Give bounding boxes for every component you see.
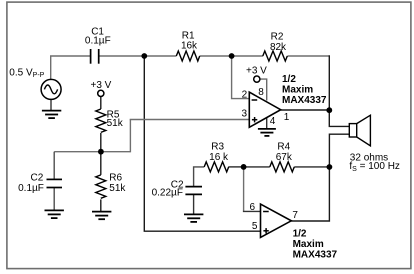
svg-text:0.22µF: 0.22µF	[152, 188, 183, 199]
wire node C left to C2	[54, 151, 101, 153]
svg-text:Maxim: Maxim	[293, 239, 324, 250]
svg-text:16 k: 16 k	[209, 152, 229, 163]
svg-text:5: 5	[252, 221, 258, 232]
wire output node to speaker plus	[329, 110, 349, 126]
wire pin 6 stub	[243, 210, 261, 212]
wire pin 4 to ground	[266, 118, 268, 129]
svg-text:7: 7	[292, 210, 298, 221]
capacitor C2b (0.22uF)	[185, 187, 202, 195]
op-amp U1 (1/2 MAX4337)	[249, 92, 280, 127]
resistor R2	[263, 51, 288, 61]
svg-text:R2: R2	[271, 31, 284, 42]
svg-text:51k: 51k	[107, 118, 124, 129]
resistor R4	[270, 162, 295, 172]
svg-text:0.1µF: 0.1µF	[18, 183, 44, 194]
svg-text:fS = 100 Hz: fS = 100 Hz	[349, 161, 400, 173]
ground (R6)	[92, 212, 111, 220]
wire U1 output to output node	[281, 109, 330, 111]
wire node D down riser	[243, 167, 245, 212]
resistor R1	[176, 51, 199, 61]
svg-text:8: 8	[258, 87, 264, 98]
wire node C right to riser	[101, 151, 130, 153]
svg-text:+3 V: +3 V	[246, 65, 267, 76]
svg-text:2: 2	[242, 89, 248, 100]
ground (C2 left)	[45, 210, 64, 218]
op-amp U2 (1/2 MAX4337)	[261, 204, 292, 237]
wire pin 3 feed	[130, 119, 250, 121]
wire source stem to C1	[51, 56, 90, 79]
svg-text:0.1µF: 0.1µF	[85, 35, 111, 46]
svg-text:51k: 51k	[109, 183, 126, 194]
node B junction dot	[229, 53, 235, 59]
svg-text:+3 V: +3 V	[91, 80, 112, 91]
svg-text:82k: 82k	[270, 42, 287, 53]
wire R1 to R2 through node B	[200, 55, 263, 57]
resistor R5	[96, 109, 106, 132]
wire U2 output to node E	[291, 167, 329, 221]
output node junction dot	[326, 107, 332, 113]
wire down to C2 top plate	[53, 152, 55, 179]
voltage source V1	[41, 79, 61, 99]
wire source bottom stem	[50, 99, 52, 110]
svg-text:4: 4	[270, 116, 276, 127]
wire +3V terminal to R5	[100, 96, 102, 109]
resistor R3	[204, 162, 229, 172]
wire C2 to ground	[53, 188, 55, 210]
wire R3 to node D	[229, 166, 244, 168]
node E junction dot	[327, 164, 333, 170]
ground (U1 pin 4)	[258, 129, 276, 136]
minus mark U1	[252, 99, 258, 101]
terminal circle +3V upper	[254, 76, 260, 82]
resistor R6	[96, 175, 106, 198]
wire R3 left lead to C2b	[194, 167, 205, 186]
node A junction dot	[141, 53, 147, 59]
wire R6 to ground	[100, 199, 102, 211]
wire riser up to pin 3 level	[129, 120, 131, 153]
wire node A down to pin 5	[144, 56, 260, 231]
capacitor C2 (0.1uF)	[47, 179, 63, 187]
wire +3V terminal to pin 8	[260, 79, 267, 100]
wire corner down to output node	[328, 55, 330, 110]
wire R5 to node C	[100, 133, 102, 152]
wire C1 to R1 through node A	[99, 55, 176, 57]
svg-text:16k: 16k	[181, 41, 198, 52]
wire node C to R6	[100, 152, 102, 175]
terminal circle +3V left	[98, 90, 104, 96]
svg-text:1: 1	[284, 112, 290, 123]
node C junction dot	[98, 149, 104, 155]
svg-text:67k: 67k	[276, 152, 293, 163]
svg-text:Maxim: Maxim	[282, 85, 313, 96]
wire speaker minus to lower output node	[329, 134, 349, 167]
plus mark U2	[263, 228, 268, 233]
capacitor C1	[91, 49, 99, 64]
wire node D to R4	[244, 166, 270, 168]
svg-text:MAX4337: MAX4337	[293, 249, 338, 260]
svg-text:MAX4337: MAX4337	[282, 95, 327, 106]
minus mark U2	[263, 211, 269, 213]
node D junction dot	[241, 164, 247, 170]
wire C2b to ground	[193, 195, 195, 215]
plus mark U1	[252, 117, 257, 122]
ground (source)	[42, 111, 61, 119]
ground (C2b)	[184, 214, 203, 222]
wire node B down to pin 2	[232, 56, 250, 99]
wire R4 to node E	[294, 166, 329, 168]
svg-text:3: 3	[241, 109, 247, 120]
wire R2 right to corner	[287, 55, 329, 57]
speaker LS1	[349, 115, 370, 146]
svg-text:6: 6	[249, 202, 255, 213]
